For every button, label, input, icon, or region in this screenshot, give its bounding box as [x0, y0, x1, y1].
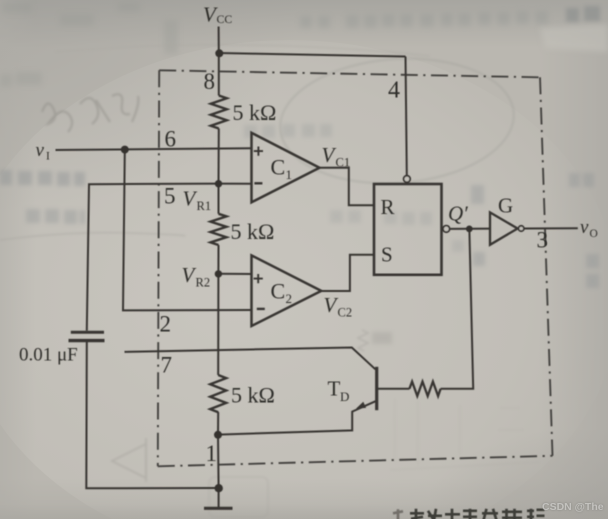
wire VR1 to R2 [218, 184, 220, 214]
svg-text:V: V [183, 187, 198, 211]
C1 plus sign [254, 147, 263, 156]
svg-text:C2: C2 [338, 306, 353, 320]
bleed text row left mid1 [0, 170, 85, 186]
transistor TD base bar [375, 367, 378, 410]
svg-text:v: v [580, 217, 589, 238]
svg-text:R1: R1 [197, 199, 212, 213]
faint reverse-side table lines bottom-right [390, 398, 540, 470]
junction dot emitter/R3 [214, 431, 222, 439]
caption glyph fragment 7 [527, 509, 545, 519]
wire pin5 from VR1 node left and down to capacitor [87, 184, 219, 331]
junction dot vI [121, 146, 129, 154]
ghost resistor from reverse page [358, 330, 368, 351]
TD emitter arrowhead [356, 402, 366, 409]
svg-text:CSDN @The: CSDN @The [542, 501, 604, 513]
wire junction down to ground junction [217, 435, 220, 507]
wire Vcc to pin4 top rail [219, 53, 406, 57]
bleed text row behind comparator C1 [244, 124, 332, 138]
caption glyph fragment 0 (faint) [393, 509, 403, 519]
junction dot Q' feedback [466, 226, 473, 233]
svg-text:R2: R2 [196, 276, 211, 290]
faint arc across top [55, 45, 430, 56]
svg-text:Q′: Q′ [448, 201, 468, 225]
caption glyph fragment 4 [463, 509, 477, 519]
bleed rounded box bottom center [209, 477, 268, 517]
resistor R2 5k zigzag [211, 214, 227, 245]
wire VR2 node to C2+ [218, 273, 251, 275]
svg-text:4: 4 [388, 78, 400, 104]
svg-text:3: 3 [537, 228, 549, 253]
wire C2 output to S input [321, 255, 374, 291]
wire Vcc down to R1 [218, 53, 220, 96]
junction dot VR1 [215, 180, 222, 187]
IC boundary dash-dot border [158, 70, 553, 466]
svg-text:5 kΩ: 5 kΩ [231, 383, 275, 408]
feedback resistor zigzag [409, 382, 440, 396]
capacitor C 0.01uF top plate [71, 331, 104, 334]
svg-text:I: I [46, 151, 50, 163]
bleed marks top-left [0, 2, 178, 87]
bleed text row top strip [300, 11, 548, 28]
svg-text:CC: CC [217, 12, 233, 26]
svg-text:5 kΩ: 5 kΩ [233, 100, 277, 125]
wire pin7 to TD collector [125, 348, 376, 370]
inverter G triangle [490, 212, 518, 244]
caption glyph fragment 3 [445, 509, 460, 519]
flip-flop top reset bubble [404, 176, 411, 183]
wire resistor to Q' feedback vertical [441, 231, 474, 389]
wire Q' to inverter G [450, 228, 490, 230]
svg-text:0.01 μF: 0.01 μF [19, 345, 78, 366]
svg-text:v: v [36, 140, 45, 161]
svg-text:1: 1 [206, 441, 218, 466]
bleed bits right edge [471, 173, 599, 288]
resistor R1 5k zigzag [211, 96, 227, 129]
svg-text:6: 6 [165, 127, 177, 152]
wire VR2 down to R3 [217, 274, 219, 375]
svg-text:D: D [340, 389, 349, 404]
C2 plus sign [254, 274, 263, 283]
wire VR1 node to C1- [219, 183, 252, 185]
comparator C2 triangle [252, 255, 322, 326]
svg-text:2: 2 [286, 291, 293, 306]
paper wrinkle curve [0, 233, 185, 240]
C2 minus sign [257, 308, 265, 310]
svg-text:C1: C1 [336, 156, 351, 170]
svg-text:7: 7 [161, 353, 173, 378]
C1 minus sign [254, 182, 262, 184]
svg-text:5 kΩ: 5 kΩ [231, 219, 275, 244]
resistor R3 5k zigzag [210, 375, 226, 412]
svg-text:C: C [271, 279, 286, 304]
svg-text:R: R [381, 195, 395, 219]
wire G output to vO [524, 227, 578, 229]
pencil scribble handwriting [42, 94, 138, 132]
svg-text:V: V [322, 143, 337, 167]
junction dot Vcc [215, 49, 223, 57]
capacitor C 0.01uF bottom plate [69, 339, 105, 342]
wire capacitor to ground rail [86, 342, 218, 488]
bleed text top-right corner [566, 6, 600, 22]
wire vI junction down to pin2 run into C2- [123, 150, 252, 311]
svg-text:1: 1 [286, 167, 293, 182]
wire R1 to node VR1 [218, 129, 220, 184]
svg-text:T: T [328, 377, 341, 401]
caption glyph fragment 6 [502, 509, 522, 519]
bleed inverter triangle bottom-left [112, 438, 146, 482]
svg-text:V: V [182, 263, 197, 287]
wire R3 to emitter junction [217, 412, 219, 435]
svg-text:C: C [271, 155, 286, 180]
flip-flop box [374, 184, 442, 275]
bleed text row left mid2 [26, 209, 85, 224]
svg-text:5: 5 [164, 184, 176, 209]
caption fragment at bottom edge [393, 509, 545, 519]
ground bar [204, 507, 233, 510]
comparator C1 triangle [252, 133, 320, 203]
svg-text:2: 2 [160, 312, 172, 337]
caption glyph fragment 1 [410, 509, 424, 519]
svg-text:8: 8 [204, 69, 216, 94]
flip-flop output bubble [443, 226, 450, 233]
caption glyph fragment 2 [428, 509, 442, 519]
bleed pen oval loop [276, 51, 518, 191]
caption glyph fragment 5 [482, 509, 498, 519]
wire R2 to node VR2 [217, 245, 219, 274]
transistor TD emitter with wire to ground rail [218, 401, 376, 434]
bleed text row behind flip-flop [330, 210, 464, 252]
junction dot VR2 [215, 270, 222, 277]
svg-text:S: S [381, 243, 393, 267]
wire vI input to C1+ [56, 148, 252, 150]
svg-text:G: G [498, 194, 513, 218]
inverter G output bubble [519, 226, 524, 231]
wire TD base to feedback resistor [378, 388, 409, 390]
wire C1 output to R input [320, 168, 375, 206]
svg-text:O: O [590, 228, 598, 240]
junction dot ground [215, 484, 223, 492]
svg-text:V: V [324, 293, 339, 317]
wire Vcc stub [218, 27, 220, 54]
wire pin4 vertical into flip-flop bubble [406, 57, 407, 176]
